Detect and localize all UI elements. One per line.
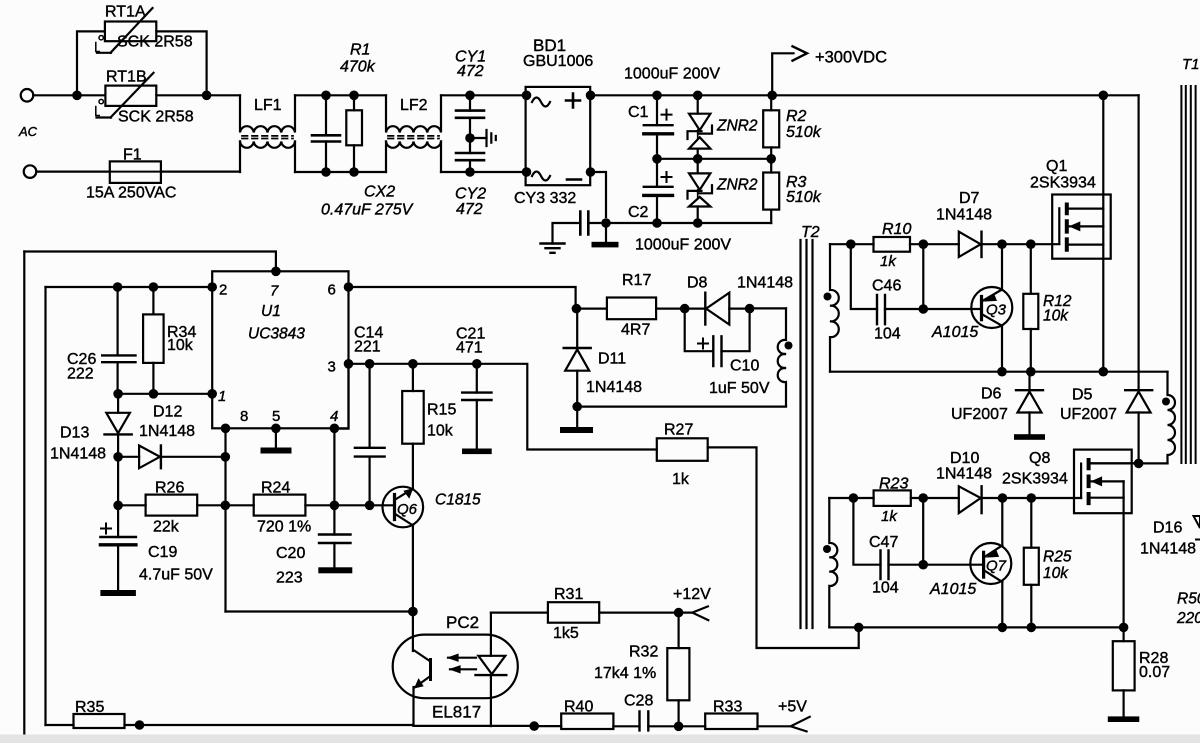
svg-text:R17: R17 bbox=[622, 272, 651, 289]
svg-text:222: 222 bbox=[67, 366, 94, 383]
svg-text:ZNR2: ZNR2 bbox=[716, 118, 758, 135]
resistor R32 bbox=[677, 613, 679, 727]
svg-text:221: 221 bbox=[354, 339, 381, 356]
resistor R15 bbox=[412, 364, 414, 489]
thermistor RT1A bbox=[105, 22, 156, 42]
wire R27 return loop bbox=[708, 447, 859, 648]
node R34 top bbox=[149, 282, 159, 292]
AC input terminal N bbox=[24, 165, 37, 178]
svg-text:C46: C46 bbox=[872, 278, 901, 295]
wire D7 to Q1 gate bbox=[982, 243, 1060, 245]
AC input terminal L bbox=[21, 89, 34, 102]
D6 ground bar bbox=[1014, 434, 1045, 440]
wire BD1 minus to ground node bbox=[590, 172, 606, 217]
svg-text:223: 223 bbox=[276, 570, 303, 587]
svg-text:1: 1 bbox=[218, 388, 226, 405]
svg-text:1N4148: 1N4148 bbox=[936, 207, 992, 224]
IC U1 UC3843 bbox=[212, 271, 348, 428]
wire neutral terminal to F1 bbox=[36, 171, 110, 173]
svg-text:C10: C10 bbox=[730, 358, 759, 375]
svg-text:D7: D7 bbox=[959, 190, 980, 207]
svg-text:4: 4 bbox=[330, 408, 338, 425]
T2 primary winding bbox=[778, 308, 786, 406]
resistor R1 bbox=[353, 95, 355, 172]
node Q8 source / R28 top bbox=[1119, 623, 1129, 633]
svg-text:4R7: 4R7 bbox=[621, 322, 650, 339]
T1 primary winding bbox=[1168, 372, 1176, 464]
capacitor C20 bbox=[333, 505, 335, 567]
capacitor C26 bbox=[116, 287, 118, 394]
svg-text:RT1B: RT1B bbox=[106, 69, 147, 86]
node R27 return on rail bbox=[854, 623, 864, 633]
varistor ZNR2 lower bbox=[697, 159, 699, 223]
node VCC rectifier bbox=[572, 304, 582, 314]
resistor R27 bbox=[657, 438, 708, 461]
svg-text:D12: D12 bbox=[153, 404, 182, 421]
ground bar below D11 bbox=[576, 407, 578, 427]
diode D11 bbox=[576, 309, 578, 407]
svg-text:3: 3 bbox=[328, 359, 336, 376]
svg-text:472: 472 bbox=[456, 201, 483, 218]
node R34 bottom bbox=[149, 389, 159, 399]
T2 upper drive winding bbox=[830, 244, 839, 372]
node PC2 collector top bbox=[408, 607, 418, 617]
svg-text:1000uF 200V: 1000uF 200V bbox=[624, 66, 720, 83]
diode D6 bbox=[1028, 372, 1030, 435]
svg-text:R23: R23 bbox=[879, 476, 908, 493]
svg-text:R1: R1 bbox=[350, 42, 370, 59]
svg-text:4.7uF 50V: 4.7uF 50V bbox=[139, 567, 213, 584]
svg-text:AC: AC bbox=[18, 124, 38, 139]
svg-text:C20: C20 bbox=[276, 545, 305, 562]
capacitor C1 bbox=[656, 95, 658, 159]
wire pin 8 down bbox=[224, 428, 226, 611]
svg-text:104: 104 bbox=[872, 580, 899, 597]
node Q7 emitter junction bbox=[998, 493, 1008, 503]
+300VDC branch bbox=[772, 53, 793, 95]
wire pin 1 rail bbox=[118, 393, 212, 395]
svg-text:ZNR2: ZNR2 bbox=[716, 177, 758, 194]
svg-text:R24: R24 bbox=[261, 480, 290, 497]
svg-text:SCK 2R58: SCK 2R58 bbox=[117, 34, 193, 51]
wire primary top rail bbox=[830, 371, 1168, 373]
node R25 bottom on rail bbox=[1027, 623, 1037, 633]
PC2 phototransistor bbox=[412, 612, 414, 652]
svg-text:SCK 2R58: SCK 2R58 bbox=[118, 109, 194, 126]
resistor R2 bbox=[770, 95, 772, 159]
diode D12 bbox=[118, 456, 225, 458]
svg-text:5: 5 bbox=[272, 408, 280, 425]
svg-text:10k: 10k bbox=[1043, 308, 1069, 325]
svg-text:LF1: LF1 bbox=[254, 97, 282, 114]
MOSFET Q1 bbox=[1052, 195, 1111, 259]
wire R10 to D7 bbox=[910, 243, 959, 245]
svg-text:1N4148: 1N4148 bbox=[737, 275, 793, 292]
svg-text:220: 220 bbox=[1176, 610, 1200, 627]
svg-text:D16: D16 bbox=[1153, 520, 1182, 537]
wire T2 primary top from D8 node bbox=[750, 307, 786, 309]
transformer T1 core bbox=[1181, 86, 1195, 463]
svg-text:R2: R2 bbox=[786, 108, 807, 125]
svg-text:C19: C19 bbox=[148, 544, 177, 561]
node Q3 collector on rail bbox=[997, 367, 1007, 377]
wire top rail LF1 to LF2 bbox=[295, 94, 386, 96]
wire bottom rail LF1 to LF2 bbox=[295, 171, 386, 173]
svg-text:10k: 10k bbox=[167, 337, 194, 354]
resistor R12 bbox=[1030, 244, 1032, 372]
svg-text:470k: 470k bbox=[340, 59, 376, 76]
svg-text:1k: 1k bbox=[672, 471, 690, 488]
wire pin 3 rail bbox=[349, 364, 657, 450]
diode D8 bbox=[685, 308, 750, 310]
svg-text:R31: R31 bbox=[554, 586, 583, 603]
svg-text:6: 6 bbox=[328, 282, 336, 299]
resistor R24 bbox=[225, 504, 334, 506]
capacitor C28 bbox=[648, 725, 678, 727]
svg-text:U1: U1 bbox=[261, 303, 281, 320]
resistor R17 bbox=[576, 308, 684, 310]
node Q3 emitter junction bbox=[997, 239, 1007, 249]
resistor R3 bbox=[770, 159, 772, 223]
node R12 top bbox=[1026, 239, 1036, 249]
capacitor C14 bbox=[369, 364, 371, 506]
node CY mid bbox=[465, 133, 475, 143]
svg-text:+12V: +12V bbox=[673, 586, 711, 603]
choke LF1 bbox=[240, 95, 295, 132]
wire live from terminal to RT1B bbox=[33, 94, 105, 96]
T1 winding polarity dot bbox=[1162, 398, 1170, 406]
diode D13 bbox=[117, 394, 119, 457]
svg-text:10k: 10k bbox=[1043, 565, 1069, 582]
wire C46 to Q3 base bbox=[923, 308, 981, 310]
svg-text:T1: T1 bbox=[1182, 56, 1200, 73]
resistor R33 bbox=[679, 725, 791, 727]
capacitor C46 bbox=[851, 244, 924, 309]
wire left outer rail bbox=[23, 252, 25, 738]
svg-text:1000uF 200V: 1000uF 200V bbox=[635, 237, 731, 254]
node R10 left bbox=[846, 239, 856, 249]
svg-text:A1015: A1015 bbox=[931, 324, 978, 341]
svg-text:EL817: EL817 bbox=[432, 703, 481, 722]
svg-text:D5: D5 bbox=[1072, 387, 1093, 404]
+12V flag bbox=[679, 606, 709, 620]
resistor R34 bbox=[152, 287, 154, 394]
capacitor CX2 bbox=[325, 95, 327, 172]
node Q1 source on rail bbox=[1099, 367, 1109, 377]
svg-text:1k: 1k bbox=[880, 253, 897, 270]
wire R23 to D10 bbox=[911, 497, 959, 499]
svg-text:CY3 332: CY3 332 bbox=[514, 190, 576, 207]
C21 ground bar bbox=[462, 449, 492, 455]
wire T2 primary bottom rail bbox=[577, 406, 786, 408]
capacitor CY3 bbox=[553, 223, 607, 244]
capacitor C21 bbox=[476, 364, 478, 449]
wire lower drive top row bbox=[829, 497, 873, 499]
svg-text:1uF 50V: 1uF 50V bbox=[709, 380, 770, 397]
svg-text:LF2: LF2 bbox=[400, 97, 428, 114]
svg-text:15A 250VAC: 15A 250VAC bbox=[86, 185, 176, 202]
capacitor CY2 bbox=[469, 138, 471, 172]
svg-text:104: 104 bbox=[874, 326, 901, 343]
svg-text:D8: D8 bbox=[687, 275, 708, 292]
svg-text:472: 472 bbox=[457, 63, 484, 80]
resistor R31 bbox=[491, 611, 679, 613]
svg-text:Q1: Q1 bbox=[1046, 158, 1067, 175]
transformer T2 core bbox=[801, 240, 813, 628]
C19 ground bar bbox=[100, 590, 135, 596]
svg-text:1k: 1k bbox=[881, 508, 898, 525]
svg-text:+300VDC: +300VDC bbox=[815, 49, 887, 67]
+5V flag bbox=[791, 717, 810, 732]
node R12 bottom / D6 top bbox=[1026, 367, 1036, 377]
MOSFET Q8 bbox=[1074, 450, 1132, 514]
svg-text:PC2: PC2 bbox=[446, 613, 479, 632]
earth ground at CY mid bbox=[470, 137, 487, 139]
ground bar pin 5 bbox=[275, 428, 277, 447]
svg-text:Q6: Q6 bbox=[397, 501, 418, 518]
wire Q8 source down bbox=[1122, 481, 1124, 627]
svg-text:2SK3934: 2SK3934 bbox=[1002, 471, 1068, 488]
capacitor CY1 bbox=[469, 95, 471, 138]
resistor R40 bbox=[534, 725, 639, 727]
resistor R26 bbox=[118, 504, 225, 506]
svg-text:UC3843: UC3843 bbox=[248, 326, 305, 343]
svg-text:GBU1006: GBU1006 bbox=[523, 53, 593, 70]
varistor ZNR2 upper bbox=[697, 95, 699, 159]
svg-text:R27: R27 bbox=[664, 422, 693, 439]
U1 pin dots 2,7,6,3,1,8,5,4 bbox=[207, 282, 217, 292]
svg-text:R50: R50 bbox=[1177, 591, 1200, 608]
node at RT left bbox=[72, 91, 82, 101]
T2 lower drive winding bbox=[829, 498, 837, 627]
svg-text:1N4148: 1N4148 bbox=[139, 423, 195, 440]
svg-text:RT1A: RT1A bbox=[105, 4, 146, 21]
svg-text:471: 471 bbox=[456, 340, 483, 357]
svg-text:R15: R15 bbox=[427, 402, 456, 419]
upper winding polarity dot bbox=[824, 293, 832, 301]
svg-text:F1: F1 bbox=[123, 147, 142, 164]
svg-text:Q3: Q3 bbox=[986, 302, 1007, 319]
node LED return bbox=[529, 721, 539, 731]
wire left inner rail bbox=[44, 287, 46, 725]
svg-text:Q7: Q7 bbox=[986, 558, 1007, 575]
svg-text:510k: 510k bbox=[786, 189, 822, 206]
node D8 cathode side bbox=[680, 304, 690, 314]
PC2 LED bbox=[490, 613, 492, 656]
wire pin 2 rail bbox=[46, 286, 213, 288]
node bridge minus bbox=[601, 218, 611, 228]
node +12V bbox=[674, 608, 684, 618]
node C14 top bbox=[365, 359, 375, 369]
node R23 left bbox=[849, 493, 859, 503]
svg-text:D6: D6 bbox=[981, 386, 1002, 403]
choke LF2 bbox=[386, 95, 441, 132]
svg-text:1N4148: 1N4148 bbox=[50, 446, 106, 463]
svg-text:2SK3934: 2SK3934 bbox=[1030, 175, 1096, 192]
PC2 coupling arrows bbox=[448, 658, 476, 670]
wire pin8 row to Q6 emitter node bbox=[226, 610, 413, 612]
bridge rectifier BD1 bbox=[526, 87, 591, 185]
svg-text:0.07: 0.07 bbox=[1139, 664, 1170, 681]
transistor Q3 bbox=[971, 287, 1012, 328]
D16 partial symbol at edge bbox=[1194, 516, 1200, 540]
wire RT1A parallel branch right bbox=[156, 31, 206, 95]
svg-text:1N4148: 1N4148 bbox=[1140, 541, 1196, 558]
transistor Q7 bbox=[970, 543, 1011, 584]
svg-text:1k5: 1k5 bbox=[553, 625, 579, 642]
svg-text:D11: D11 bbox=[598, 351, 626, 368]
capacitor C47 bbox=[853, 498, 923, 565]
resistor R10 bbox=[874, 237, 911, 252]
svg-text:0.47uF 275V: 0.47uF 275V bbox=[321, 202, 414, 219]
svg-text:510k: 510k bbox=[786, 124, 822, 141]
svg-text:C1815: C1815 bbox=[435, 492, 481, 509]
resistor R25 bbox=[1030, 498, 1032, 627]
svg-text:C1: C1 bbox=[628, 104, 649, 121]
optocoupler PC2 body bbox=[393, 635, 518, 699]
svg-text:22k: 22k bbox=[153, 519, 180, 536]
earth ground below CY3 bbox=[541, 244, 565, 253]
svg-text:1N4148: 1N4148 bbox=[936, 466, 992, 483]
wire top rail LF2 to bridge bbox=[441, 94, 526, 96]
svg-text:+5V: +5V bbox=[778, 699, 807, 716]
diode D7 bbox=[959, 232, 981, 257]
svg-text:R33: R33 bbox=[713, 699, 742, 716]
node D10 anode side bbox=[918, 493, 928, 503]
svg-text:R10: R10 bbox=[882, 221, 911, 238]
wire C47 to Q7 base bbox=[923, 564, 983, 566]
wire pin 6 to R17 node bbox=[349, 287, 576, 309]
wire +300V top rail bbox=[590, 94, 1138, 96]
svg-text:A1015: A1015 bbox=[929, 581, 976, 598]
node Q7 collector on rail bbox=[998, 623, 1008, 633]
node R15 top bbox=[408, 359, 418, 369]
wire pin 7 supply rail bbox=[24, 252, 276, 272]
node D7 anode side bbox=[919, 239, 929, 249]
node C21 top bbox=[472, 359, 482, 369]
svg-text:UF2007: UF2007 bbox=[951, 406, 1008, 423]
node C26 top bbox=[113, 282, 123, 292]
lower winding polarity dot bbox=[823, 545, 831, 553]
wire upper drive top row bbox=[830, 243, 874, 245]
node R25 top bbox=[1027, 493, 1037, 503]
resistor R35 bbox=[46, 724, 140, 726]
wire neutral F1 to LF1 bbox=[161, 171, 240, 173]
svg-text:Q8: Q8 bbox=[1029, 450, 1050, 467]
wire bottom feedback rail bbox=[140, 724, 535, 727]
svg-text:C47: C47 bbox=[869, 534, 898, 551]
svg-text:C28: C28 bbox=[624, 693, 653, 710]
transistor Q6 bbox=[383, 487, 424, 528]
wire RT1A parallel branch left bbox=[77, 31, 105, 95]
T2 primary polarity dot bbox=[785, 342, 793, 350]
wire D10 to Q8 gate bbox=[982, 497, 1082, 499]
resistor R23 bbox=[874, 490, 911, 506]
resistor R28 bbox=[1122, 627, 1124, 716]
wire T1 winding bottom to Q8 drain bbox=[1091, 462, 1168, 464]
svg-text:CY2: CY2 bbox=[455, 186, 486, 203]
wire HV minus rail bbox=[606, 222, 771, 224]
svg-text:R35: R35 bbox=[75, 699, 104, 716]
svg-text:R40: R40 bbox=[564, 699, 593, 716]
R28 ground bar bbox=[1108, 716, 1140, 722]
svg-text:10k: 10k bbox=[427, 423, 454, 440]
svg-text:17k4 1%: 17k4 1% bbox=[594, 665, 656, 682]
wire Q1 drain-source vertical bbox=[1102, 95, 1104, 371]
svg-text:720 1%: 720 1% bbox=[257, 519, 311, 536]
diode D5 bbox=[1137, 95, 1139, 463]
page bottom margin strip bbox=[0, 735, 1200, 743]
svg-text:8: 8 bbox=[240, 408, 248, 425]
svg-text:7: 7 bbox=[270, 283, 279, 300]
node at RT right bbox=[202, 91, 212, 101]
wire lower drive bottom rail bbox=[829, 626, 1123, 628]
svg-text:CX2: CX2 bbox=[364, 184, 395, 201]
wire pin 4 down bbox=[333, 428, 335, 505]
svg-text:1N4148: 1N4148 bbox=[586, 379, 642, 396]
svg-text:R26: R26 bbox=[155, 480, 184, 497]
svg-text:R32: R32 bbox=[629, 644, 658, 661]
capacitor C10 bbox=[685, 309, 750, 352]
svg-text:UF2007: UF2007 bbox=[1060, 406, 1117, 423]
wire live RT to LF1 bbox=[156, 94, 240, 96]
thermistor RT1B bbox=[105, 86, 156, 106]
svg-text:T2: T2 bbox=[801, 224, 820, 241]
svg-text:2: 2 bbox=[219, 282, 227, 299]
wire pin 3 jog to pin 4 bbox=[334, 364, 348, 429]
wire D13 to R26 row bbox=[117, 457, 119, 506]
svg-text:D10: D10 bbox=[950, 450, 979, 467]
node C26 bottom / D13 top bbox=[113, 389, 123, 399]
capacitor C19 bbox=[117, 505, 119, 590]
capacitor C2 bbox=[656, 159, 658, 223]
svg-text:D13: D13 bbox=[60, 425, 89, 442]
diode D10 bbox=[959, 486, 981, 513]
svg-text:R25: R25 bbox=[1043, 549, 1072, 566]
fuse F1 bbox=[110, 161, 161, 183]
svg-text:C2: C2 bbox=[628, 204, 649, 221]
wire bottom rail LF2 to bridge bbox=[441, 171, 526, 173]
wire R24 row to Q6 base bbox=[334, 504, 394, 506]
wire HV mid rail bbox=[657, 158, 771, 160]
power ground bar at bridge minus bbox=[605, 223, 607, 242]
C20 ground bar bbox=[318, 567, 352, 573]
